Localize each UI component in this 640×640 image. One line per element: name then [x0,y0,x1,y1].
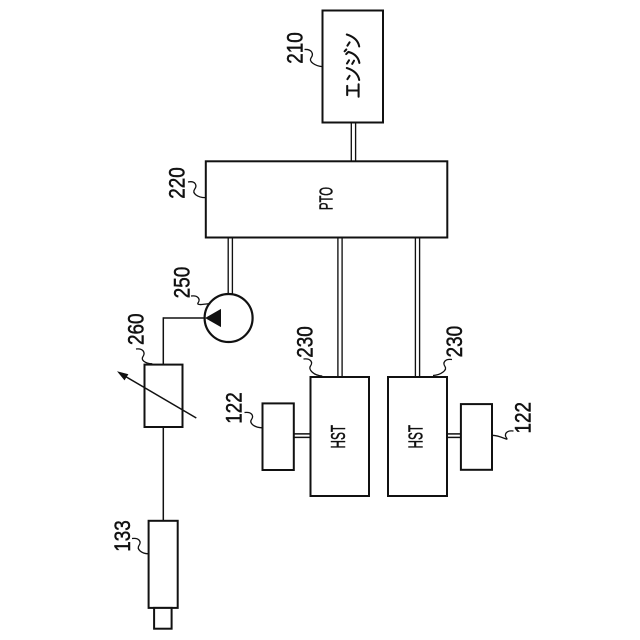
component 133 tab rect [154,608,172,629]
svg-text:230: 230 [442,326,467,358]
svg-text:230: 230 [293,326,318,358]
pump circle 250 [205,294,253,342]
component 133 main rect [149,521,178,608]
leader 230 right [433,359,452,375]
HST box 2 (230) [388,377,447,496]
wire pump to corner [163,317,204,319]
connector 122R to HST2 [447,434,461,438]
shaft PTO to HST1 [338,238,342,378]
leader 122 left [245,412,263,427]
engine box 210 [323,11,384,123]
svg-text:122: 122 [222,392,247,424]
svg-text:210: 210 [283,32,308,64]
PTO box 220 [206,161,447,237]
leader 220 [188,182,206,198]
svg-text:PTO: PTO [315,187,336,210]
122 rect left [263,403,294,470]
valve box 260 [145,365,183,427]
wire valve to 133 [162,427,164,521]
ン (top char) [347,35,359,47]
leader 122 right [492,431,513,439]
svg-text:250: 250 [169,267,194,299]
shaft PTO to pump [228,238,232,296]
shaft PTO to HST2 [415,238,419,378]
leader 230 left [304,359,323,376]
wire corner to valve [162,317,164,364]
leader 250 [191,296,211,305]
エ (bottom char) [347,84,358,96]
shaft engine to PTO [351,123,355,162]
engine label text エンジン [345,35,360,97]
leader 133 [132,538,148,553]
svg-text:122: 122 [511,402,536,434]
svg-text:HST: HST [406,425,428,449]
pump triangle [206,310,221,327]
ジ [345,50,360,64]
122 rect right [461,404,492,470]
leader 260 [136,349,152,364]
HST box 1 (230) [311,377,370,496]
svg-text:HST: HST [328,425,350,449]
svg-text:133: 133 [110,520,135,552]
valve diagonal arrow [123,375,196,418]
svg-text:220: 220 [165,167,190,199]
ン [347,68,359,80]
connector 122L to HST1 [294,434,311,438]
svg-text:260: 260 [124,314,149,346]
leader 210 [305,49,323,66]
